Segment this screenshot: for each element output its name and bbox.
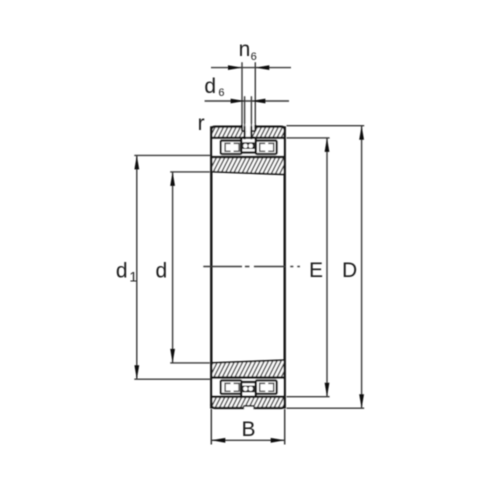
cage bracket left-left (top)	[225, 143, 231, 151]
roller + cage box right (top section)	[256, 141, 277, 154]
svg-text:d: d	[204, 75, 216, 98]
bore line (top, tapered)	[211, 172, 284, 175]
centre spacer piece (bottom section)	[241, 382, 256, 397]
cage bracket left-right (bottom)	[234, 383, 240, 391]
cage bracket left-right (top)	[234, 143, 240, 151]
svg-text:1: 1	[129, 269, 137, 285]
lubrication groove (top, cut into OD)	[243, 124, 255, 131]
D dimension line	[361, 126, 363, 409]
ds dimension line	[205, 100, 289, 102]
ds extension lines	[245, 96, 252, 126]
outer ring OD edge (bottom)	[211, 404, 284, 408]
svg-text:r: r	[198, 112, 205, 135]
roller + cage box left (top section)	[221, 141, 242, 154]
inner ring raceway edge (top)	[211, 156, 284, 158]
lubrication groove notch (bottom, cut into OD)	[244, 406, 255, 410]
inner ring raceway edge (bottom)	[211, 376, 284, 378]
E dimension line	[326, 138, 328, 397]
d extension lines	[170, 172, 210, 363]
outer ring (top section)	[211, 127, 284, 138]
centre spacer dark band with lube holes (top)	[242, 142, 254, 149]
groove floor lines (top)	[242, 130, 255, 132]
svg-text:d: d	[116, 260, 128, 283]
dimension B	[211, 409, 284, 445]
E extension lines	[287, 138, 330, 397]
d dimension line	[172, 172, 174, 363]
svg-text:6: 6	[218, 87, 224, 99]
groove floor line (bottom)	[244, 405, 255, 407]
d arrow down	[170, 349, 175, 363]
B arrow right	[271, 438, 285, 443]
cage bracket right-right (top)	[268, 143, 274, 151]
svg-text:n: n	[239, 38, 251, 61]
roller + cage box left (bottom section)	[221, 381, 242, 394]
E arrow down	[325, 383, 330, 397]
roller row band (top section)	[212, 139, 283, 156]
groove walls thick part (top)	[242, 125, 255, 132]
axis centerline (dash-dot)	[203, 266, 300, 268]
svg-text:B: B	[242, 418, 256, 441]
B dimension line	[211, 439, 284, 441]
svg-text:D: D	[342, 259, 357, 282]
dimension ds: hole diameter	[205, 96, 289, 126]
lubrication hole through outer ring (top)	[246, 131, 251, 137]
ds arrow right	[251, 99, 265, 104]
dimension d1	[134, 155, 210, 379]
ns extension lines	[242, 62, 255, 124]
d arrow up	[170, 172, 175, 186]
outer ring (bottom section)	[211, 397, 284, 408]
dimension ns: groove width	[211, 62, 291, 124]
cage bracket right-left (top)	[260, 143, 266, 151]
d1 dimension line	[136, 155, 138, 379]
d1 arrow up	[134, 155, 139, 169]
ds arrow left	[231, 99, 245, 104]
D arrow up	[359, 126, 364, 140]
roller row band (bottom section)	[212, 379, 283, 396]
d1 extension lines	[134, 155, 210, 379]
outer ring raceway edge (top)	[211, 137, 284, 139]
inner ring (bottom section, tapered bore)	[211, 360, 284, 377]
cage bracket right-right (bottom)	[268, 383, 274, 391]
ns arrow left	[228, 65, 242, 70]
hole walls (top)	[245, 126, 252, 139]
dimension E	[287, 138, 330, 397]
centre spacer dark band with lube holes (bottom)	[242, 386, 254, 393]
ns dimension line	[211, 67, 291, 69]
svg-text:6: 6	[251, 51, 257, 63]
dimension d	[170, 172, 210, 363]
bore line (bottom, tapered)	[211, 360, 284, 363]
inner ring (top section, tapered bore)	[211, 157, 284, 174]
D extension lines	[287, 126, 365, 409]
outer ring OD edge (top)	[211, 127, 284, 131]
svg-text:d: d	[156, 260, 168, 283]
B extension lines	[211, 409, 284, 445]
dimension D	[287, 126, 365, 409]
left face line	[210, 126, 212, 408]
svg-text:E: E	[309, 259, 323, 282]
roller + cage box right (bottom section)	[256, 381, 277, 394]
groove side walls (bottom)	[244, 406, 255, 409]
D arrow down	[359, 394, 364, 408]
outer ring raceway edge (bottom)	[211, 396, 284, 398]
right face line	[284, 126, 286, 408]
d1 arrow down	[134, 365, 139, 379]
cage bracket right-left (bottom)	[260, 383, 266, 391]
centre spacer piece (top section)	[241, 138, 256, 153]
B arrow left	[211, 438, 225, 443]
ns arrow right	[255, 65, 269, 70]
cage bracket left-left (bottom)	[225, 383, 231, 391]
E arrow up	[325, 138, 330, 152]
